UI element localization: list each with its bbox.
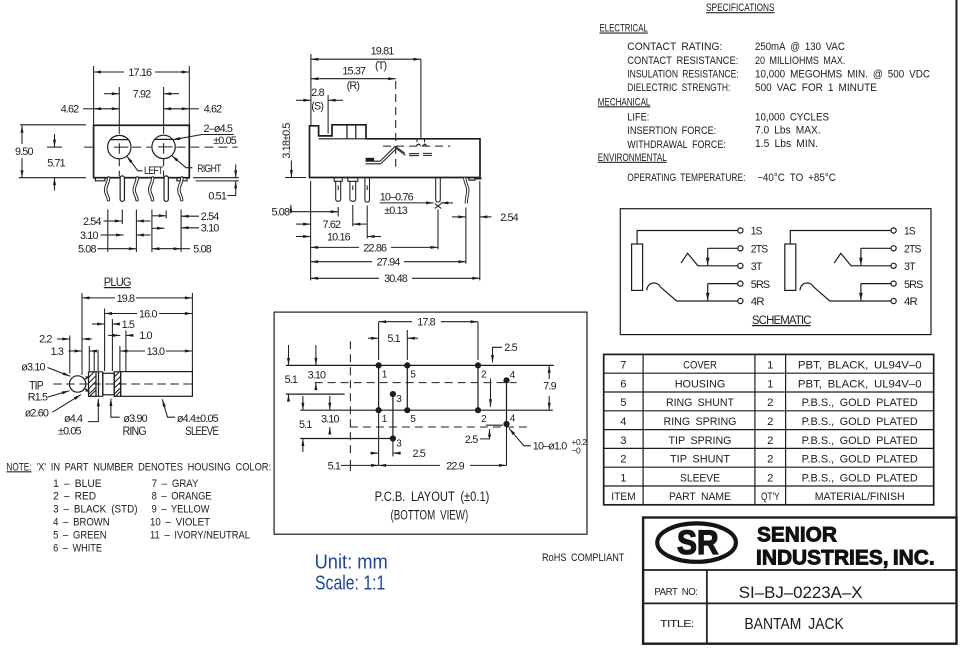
front view left stub	[95, 178, 105, 181]
pin 4 wavy	[150, 178, 153, 200]
dim 19.81	[310, 54, 312, 125]
svg-text:2: 2	[767, 454, 773, 466]
svg-text:SPECIFICATIONS: SPECIFICATIONS	[706, 2, 775, 14]
svg-text:P.C.B. LAYOUT (±0.1): P.C.B. LAYOUT (±0.1)	[375, 489, 490, 504]
svg-text:10,000 CYCLES: 10,000 CYCLES	[755, 112, 829, 124]
svg-text:SR: SR	[677, 524, 719, 562]
contact arm lower	[366, 161, 381, 164]
solder lug solid	[366, 158, 375, 162]
svg-text:TITLE:: TITLE:	[660, 619, 694, 630]
side pin 5 bent	[465, 178, 468, 204]
svg-text:1: 1	[767, 378, 773, 390]
svg-text:1: 1	[767, 360, 773, 372]
front view right stub	[177, 178, 187, 181]
svg-text:WITHDRAWAL FORCE:: WITHDRAWAL FORCE:	[627, 139, 726, 151]
svg-text:5 – GREEN: 5 – GREEN	[53, 529, 107, 541]
svg-text:2: 2	[767, 435, 773, 447]
svg-text:4R: 4R	[751, 296, 765, 308]
svg-text:SLEEVE: SLEEVE	[185, 426, 219, 438]
svg-text:250mA @ 130 VAC: 250mA @ 130 VAC	[755, 41, 845, 53]
side pins	[334, 178, 468, 204]
svg-text:TIP SPRING: TIP SPRING	[669, 435, 732, 447]
svg-text:1 – BLUE: 1 – BLUE	[53, 478, 102, 490]
svg-text:2 – RED: 2 – RED	[53, 491, 96, 503]
front view body	[94, 125, 190, 177]
dashed horizontal centerline 2	[350, 426, 530, 428]
SECTION:SCHEMATIC	[620, 209, 931, 335]
SECTION:SIDEVIEW	[272, 46, 519, 286]
svg-text:BANTAM JACK: BANTAM JACK	[744, 616, 844, 633]
svg-text:2: 2	[620, 454, 626, 466]
front pins	[106, 178, 182, 200]
right hole chord	[155, 138, 173, 140]
dim 13.0	[120, 350, 145, 352]
dim 22.9	[379, 412, 507, 465]
label dia4.4	[88, 399, 99, 422]
dim 5.08 bottom-right	[152, 248, 181, 250]
svg-text:5.1: 5.1	[387, 333, 400, 345]
SR logo	[657, 523, 736, 561]
dim 5.1 left lower	[302, 396, 304, 410]
dashed horizontal centerline 1	[315, 382, 517, 384]
leader 10-dia1.0	[509, 428, 531, 446]
dim 1.0	[108, 334, 120, 336]
svg-text:PBT, BLACK, UL94V–0: PBT, BLACK, UL94V–0	[798, 360, 922, 372]
svg-text:(BOTTOM VIEW): (BOTTOM VIEW)	[391, 508, 469, 523]
row 1 line	[286, 364, 554, 366]
pin 2 straight	[120, 178, 126, 199]
svg-text:7.62: 7.62	[323, 219, 341, 231]
sheet right border	[956, 0, 958, 644]
svg-text:9.50: 9.50	[15, 146, 33, 158]
dim 17.8	[379, 322, 478, 360]
svg-text:1.0: 1.0	[139, 330, 152, 342]
svg-text:7.92: 7.92	[133, 89, 151, 101]
terminal 1S	[738, 228, 743, 233]
svg-text:4: 4	[620, 416, 626, 428]
svg-text:ø4.4: ø4.4	[64, 413, 83, 425]
jack symbol 1	[632, 226, 770, 309]
svg-text:P.B.S., GOLD PLATED: P.B.S., GOLD PLATED	[802, 397, 918, 409]
svg-text:2: 2	[767, 397, 773, 409]
svg-text:4.62: 4.62	[204, 104, 222, 116]
svg-text:4 – BROWN: 4 – BROWN	[53, 517, 110, 529]
vertical centerline left	[118, 87, 120, 125]
svg-text:22.9: 22.9	[446, 460, 464, 472]
tip spring double slant	[380, 146, 405, 164]
svg-text:NOTE:: NOTE:	[6, 461, 31, 473]
svg-text:5.08: 5.08	[78, 243, 96, 255]
terminal 3T	[738, 263, 743, 268]
svg-text:6 – WHITE: 6 – WHITE	[53, 542, 102, 554]
svg-text:5.1: 5.1	[285, 374, 298, 386]
shunt arrow 5RS-4R	[707, 284, 709, 301]
SECTION:TITLEBLOCK	[643, 518, 956, 644]
svg-text:INSERTION FORCE:: INSERTION FORCE:	[627, 125, 716, 137]
svg-text:2: 2	[767, 472, 773, 484]
dim 7.9	[548, 365, 550, 379]
dim 15.37	[311, 78, 396, 80]
svg-text:4.62: 4.62	[61, 104, 79, 116]
svg-text:5.1: 5.1	[299, 419, 312, 431]
svg-text:5: 5	[620, 397, 626, 409]
svg-text:1.5: 1.5	[122, 319, 135, 331]
svg-text:3.18±0.5: 3.18±0.5	[281, 123, 293, 159]
parts table grid	[604, 354, 934, 504]
small carets	[416, 144, 427, 146]
left hole chord	[110, 139, 128, 141]
right jack hole circle	[152, 135, 175, 158]
svg-text:LEFT: LEFT	[144, 165, 164, 177]
svg-text:COVER: COVER	[683, 360, 717, 372]
svg-text:1S: 1S	[751, 226, 762, 238]
plug extension lines	[70, 293, 193, 375]
svg-text:1.3: 1.3	[51, 346, 64, 358]
dim 30.48	[311, 277, 379, 279]
dim 3.10 bottom-right	[181, 227, 199, 229]
svg-text:RING: RING	[123, 426, 147, 438]
dim 22.86	[311, 246, 359, 248]
svg-text:8 – ORANGE: 8 – ORANGE	[152, 491, 212, 503]
dim 3.10 left lower	[329, 396, 331, 410]
arrow mid pad4	[490, 379, 492, 407]
side view body outline	[310, 125, 481, 178]
svg-text:7.0 Lbs MAX.: 7.0 Lbs MAX.	[755, 124, 821, 136]
svg-text:3.10: 3.10	[321, 413, 339, 425]
tip spring contact	[681, 253, 738, 265]
svg-text:LIFE:: LIFE:	[627, 112, 649, 124]
svg-text:1.5 Lbs MIN.: 1.5 Lbs MIN.	[755, 138, 818, 150]
svg-text:±0.13: ±0.13	[384, 205, 408, 217]
svg-text:5RS: 5RS	[751, 279, 770, 291]
svg-text:0.51: 0.51	[208, 190, 226, 202]
svg-text:3.10: 3.10	[80, 230, 98, 242]
svg-text:2–ø4.5: 2–ø4.5	[204, 123, 233, 135]
left jack hole circle	[108, 135, 131, 158]
SECTION:PCB	[274, 312, 587, 534]
svg-text:QT'Y: QT'Y	[761, 491, 780, 503]
side pin 4	[436, 178, 441, 203]
svg-text:±0.05: ±0.05	[58, 426, 82, 438]
SECTION:NOTE	[6, 461, 271, 554]
svg-text:CONTACT RATING:: CONTACT RATING:	[627, 41, 722, 53]
label dia4.4 sleeve	[162, 399, 175, 417]
svg-text:2: 2	[767, 416, 773, 428]
svg-text:ELECTRICAL: ELECTRICAL	[600, 23, 648, 35]
svg-text:PART NAME: PART NAME	[669, 491, 731, 503]
dim 2.5 pad3	[392, 442, 394, 457]
pads row 2	[376, 407, 382, 413]
dim 3.10 left upper	[315, 345, 317, 365]
horizontal centerline dashes	[84, 146, 238, 148]
pin 1 wavy	[106, 178, 109, 200]
pad labels	[382, 370, 516, 450]
svg-text:2.5: 2.5	[504, 342, 517, 354]
svg-text:PART NO:: PART NO:	[654, 587, 697, 598]
svg-text:±0.05: ±0.05	[213, 135, 237, 147]
svg-text:−0: −0	[571, 446, 581, 456]
row 2 line	[300, 409, 553, 411]
svg-text:P.B.S., GOLD PLATED: P.B.S., GOLD PLATED	[802, 472, 918, 484]
jack symbol 2	[785, 226, 923, 309]
wire 1S	[637, 231, 738, 245]
terminal block dividers	[332, 125, 366, 139]
pin 6 wavy	[179, 178, 182, 200]
svg-text:PBT, BLACK, UL94V–0: PBT, BLACK, UL94V–0	[798, 378, 922, 390]
svg-text:2.2: 2.2	[39, 334, 52, 346]
svg-text:(R): (R)	[347, 80, 360, 92]
sleeve body rectangle	[632, 244, 643, 290]
dim 7.92	[104, 93, 119, 95]
svg-text:RING SHUNT: RING SHUNT	[666, 397, 734, 409]
SECTION:SPECS	[598, 2, 931, 184]
svg-text:MECHANICAL: MECHANICAL	[598, 96, 651, 108]
svg-text:30.48: 30.48	[384, 273, 408, 285]
hatched band 2	[114, 372, 121, 397]
svg-text:2.54: 2.54	[201, 211, 219, 223]
svg-text:ø3.90: ø3.90	[123, 413, 147, 425]
svg-text:10–ø1.0: 10–ø1.0	[533, 441, 568, 453]
label dia3.90 RING	[111, 399, 120, 418]
svg-text:'X' IN PART NUMBER DENOTES HOU: 'X' IN PART NUMBER DENOTES HOUSING COLOR…	[36, 461, 271, 473]
dim 27.94	[311, 261, 372, 263]
label LEFT	[127, 156, 143, 171]
side right stub	[469, 178, 481, 181]
svg-text:2.5: 2.5	[465, 434, 478, 446]
svg-text:2.54: 2.54	[500, 212, 518, 224]
svg-text:15.37: 15.37	[342, 66, 366, 78]
shunt arrow 2TS-3T	[707, 248, 709, 265]
dim 0.51	[193, 177, 239, 179]
svg-text:RIGHT: RIGHT	[197, 163, 221, 175]
svg-text:ENVIRONMENTAL: ENVIRONMENTAL	[598, 152, 667, 164]
wire 2TS	[708, 247, 738, 249]
title block frame	[643, 518, 956, 644]
middle tick arrows	[136, 220, 150, 222]
svg-text:P.B.S., GOLD PLATED: P.B.S., GOLD PLATED	[802, 435, 918, 447]
svg-text:7.9: 7.9	[543, 381, 556, 393]
label 2-dia4.5	[173, 135, 234, 140]
dim 2.54 bottom-right	[181, 215, 199, 217]
svg-text:ø2.60: ø2.60	[25, 408, 49, 420]
right hole center marks	[158, 143, 172, 154]
svg-text:10–0.76: 10–0.76	[380, 191, 414, 203]
svg-text:PLUG: PLUG	[104, 275, 131, 289]
svg-text:P.B.S., GOLD PLATED: P.B.S., GOLD PLATED	[802, 454, 918, 466]
SECTION:MISC	[315, 551, 625, 594]
svg-text:1: 1	[620, 472, 626, 484]
dim 4.62 right	[164, 108, 190, 110]
side pin 3	[365, 178, 370, 203]
svg-text:MATERIAL/FINISH: MATERIAL/FINISH	[815, 491, 905, 503]
svg-text:OPERATING TEMPERATURE:: OPERATING TEMPERATURE:	[627, 172, 745, 184]
svg-text:SI–BJ–0223A–X: SI–BJ–0223A–X	[739, 583, 863, 602]
pin 5 straight	[163, 178, 169, 199]
svg-text:2.5: 2.5	[413, 448, 426, 460]
svg-text:HOUSING: HOUSING	[675, 378, 726, 390]
svg-text:R1.5: R1.5	[28, 392, 48, 404]
svg-text:DIELECTRIC STRENGTH:: DIELECTRIC STRENGTH:	[627, 82, 730, 94]
svg-text:(S): (S)	[311, 101, 323, 113]
svg-text:2TS: 2TS	[751, 244, 768, 256]
svg-text:6: 6	[620, 378, 626, 390]
knurl bands	[96, 372, 103, 397]
dim 10.16	[296, 236, 311, 238]
svg-text:17.16: 17.16	[128, 67, 152, 79]
pads 3	[390, 391, 396, 397]
svg-text:3.10: 3.10	[308, 369, 326, 381]
svg-text:10,000 MEGOHMS MIN. @ 500 VDC: 10,000 MEGOHMS MIN. @ 500 VDC	[755, 68, 930, 80]
svg-text:CONTACT RESISTANCE:: CONTACT RESISTANCE:	[627, 55, 738, 67]
dim 5.71	[47, 146, 62, 148]
svg-text:20 MILLIOHMS MAX.: 20 MILLIOHMS MAX.	[755, 55, 845, 67]
svg-text:SLEEVE: SLEEVE	[680, 472, 720, 484]
hidden pin dashes	[417, 139, 425, 145]
dim 19.8	[82, 297, 115, 299]
svg-text:5.08: 5.08	[272, 206, 290, 218]
svg-text:10 – VIOLET: 10 – VIOLET	[150, 517, 210, 529]
svg-text:9 – YELLOW: 9 – YELLOW	[152, 504, 210, 516]
pcb layout box	[274, 312, 587, 534]
sleeve barrel	[121, 372, 193, 397]
terminal 2TS	[738, 246, 743, 251]
svg-text:RING SPRING: RING SPRING	[664, 416, 737, 428]
svg-text:TIP SHUNT: TIP SHUNT	[670, 454, 730, 466]
side pin 1	[334, 178, 342, 202]
pad3 lower ext line	[300, 438, 390, 440]
dim 1.5	[92, 323, 105, 325]
svg-text:2.54: 2.54	[83, 216, 101, 228]
internal dashed contact line	[383, 145, 450, 147]
pads 4	[503, 377, 509, 383]
dim 9.50	[20, 124, 86, 126]
svg-text:ø4.4±0.05: ø4.4±0.05	[177, 413, 219, 425]
svg-text:P.B.S., GOLD PLATED: P.B.S., GOLD PLATED	[802, 416, 918, 428]
plug tip ball	[69, 376, 85, 392]
svg-text:2.8: 2.8	[311, 87, 324, 99]
pads row 1	[376, 362, 382, 368]
svg-text:3T: 3T	[751, 261, 763, 273]
centerline dashed vertical	[395, 81, 397, 167]
svg-text:19.81: 19.81	[371, 46, 395, 58]
svg-text:10.16: 10.16	[327, 231, 351, 243]
svg-text:ø3.10: ø3.10	[21, 362, 45, 374]
side pin 2	[348, 178, 358, 202]
svg-text:3.10: 3.10	[201, 223, 219, 235]
pad4 lower ext line	[486, 424, 503, 426]
svg-text:16.0: 16.0	[139, 308, 157, 320]
svg-text:INSULATION RESISTANCE:: INSULATION RESISTANCE:	[627, 68, 738, 80]
parts table text	[611, 360, 921, 504]
dim 5.1 top	[368, 337, 379, 339]
svg-text:SENIOR: SENIOR	[757, 524, 837, 547]
svg-text:7 – GRAY: 7 – GRAY	[152, 478, 199, 490]
svg-text:SCHEMATIC: SCHEMATIC	[752, 313, 812, 327]
svg-text:−40°C TO +85°C: −40°C TO +85°C	[757, 172, 836, 184]
svg-text:19.8: 19.8	[117, 293, 135, 305]
ring spring contact	[647, 283, 738, 301]
left hole center marks	[114, 143, 128, 154]
svg-text:Scale: 1:1: Scale: 1:1	[315, 573, 385, 595]
pad column lines	[379, 365, 507, 438]
dim 16.0	[105, 313, 137, 315]
SECTION:TABLE	[604, 354, 934, 504]
pad3 upper ext line	[286, 393, 345, 395]
terminal 5RS	[738, 281, 743, 286]
svg-text:INDUSTRIES, INC.: INDUSTRIES, INC.	[756, 547, 935, 570]
svg-text:11 – IVORY/NEUTRAL: 11 – IVORY/NEUTRAL	[150, 529, 250, 541]
pin extension lines below	[108, 210, 181, 253]
dim 5.1 left upper	[288, 345, 290, 365]
ring groove section	[103, 373, 114, 395]
hatched band 1	[89, 372, 97, 397]
tolerance x mark	[435, 204, 441, 209]
contact dashes right	[409, 153, 432, 155]
wire 5RS	[708, 283, 738, 285]
plug neck	[84, 377, 89, 391]
dim 7.62	[296, 223, 311, 225]
terminal 4R	[738, 298, 743, 303]
svg-text:5.71: 5.71	[47, 158, 65, 170]
plug centerline	[53, 383, 192, 385]
svg-text:5.08: 5.08	[193, 243, 211, 255]
dim 17.16	[93, 66, 95, 125]
svg-text:Unit: mm: Unit: mm	[315, 551, 388, 573]
svg-text:500 VAC FOR 1 MINUTE: 500 VAC FOR 1 MINUTE	[755, 82, 877, 94]
SECTION:FRONTVIEW	[15, 66, 239, 255]
svg-text:3: 3	[620, 435, 626, 447]
svg-text:17.8: 17.8	[417, 317, 435, 329]
SECTION:PLUG	[21, 275, 219, 438]
svg-text:7: 7	[620, 360, 626, 372]
svg-text:27.94: 27.94	[377, 257, 401, 269]
schematic box	[620, 209, 931, 335]
svg-text:RoHS COMPLIANT: RoHS COMPLIANT	[542, 552, 625, 564]
shelf line	[319, 138, 332, 140]
dim 2.54 side right	[452, 216, 466, 218]
label RIGHT	[172, 156, 193, 168]
dashed vertical centerline	[349, 341, 351, 455]
vertical centerline right	[163, 87, 165, 125]
side extension lines	[311, 181, 480, 280]
svg-text:3 – BLACK (STD): 3 – BLACK (STD)	[53, 504, 137, 516]
svg-text:5.1: 5.1	[328, 460, 341, 472]
svg-text:22.86: 22.86	[363, 242, 387, 254]
svg-text:13.0: 13.0	[147, 346, 165, 358]
svg-text:ITEM: ITEM	[611, 491, 635, 503]
pin 3 wavy	[134, 178, 137, 200]
svg-text:(T): (T)	[375, 60, 386, 72]
